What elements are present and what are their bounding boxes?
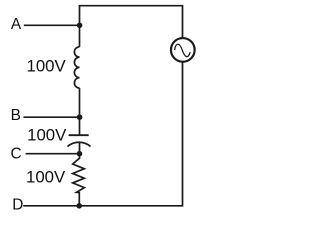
node C junction dot: [77, 151, 83, 157]
capacitor C1 top plate: [69, 134, 89, 136]
inductor L1: [74, 47, 79, 88]
svg-text:D: D: [12, 197, 23, 214]
svg-text:100V: 100V: [26, 57, 66, 76]
wire A-dot to inductor: [79, 25, 81, 47]
wire node A lead: [24, 24, 80, 26]
svg-text:B: B: [11, 107, 21, 124]
wire inductor to capacitor: [79, 88, 81, 135]
AC source V1: [171, 38, 195, 62]
svg-text:A: A: [11, 16, 22, 33]
svg-text:C: C: [10, 145, 21, 162]
svg-text:100V: 100V: [26, 168, 66, 187]
capacitor C1 curved plate: [68, 142, 91, 146]
node B junction dot: [77, 114, 83, 120]
svg-text:100V: 100V: [27, 125, 67, 144]
wire right branch down and bottom rail: [23, 62, 182, 206]
wire node C lead: [26, 153, 80, 155]
sine wave inside source: [175, 44, 191, 56]
wire top rail with left and right drops: [80, 6, 183, 38]
node A junction dot: [77, 23, 83, 29]
wire capacitor to node C: [79, 143, 81, 154]
node D junction dot: [76, 203, 82, 209]
resistor R1: [73, 154, 85, 206]
wire node B lead: [23, 116, 79, 118]
